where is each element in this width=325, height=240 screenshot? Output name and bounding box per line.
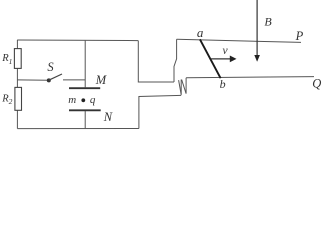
rail P <box>177 39 301 42</box>
wire: upper connector, right side of loop down and across <box>138 41 174 82</box>
magnetic field arrow B line <box>256 0 258 56</box>
velocity arrowhead <box>230 56 237 63</box>
wire: switch wire left segment <box>17 79 48 81</box>
svg-text:B: B <box>264 14 272 28</box>
svg-text:a: a <box>197 25 204 40</box>
svg-text:Q: Q <box>312 77 321 91</box>
wire: top wire of left loop <box>17 39 138 42</box>
wire: zigzag break, left diagonal <box>179 80 182 95</box>
wire: switch wire right segment <box>63 79 85 81</box>
svg-text:S: S <box>47 60 54 74</box>
wire: vertical wire from top wire to plate M <box>84 41 86 88</box>
svg-text:R2: R2 <box>1 93 12 106</box>
wire: zigzag break, vertical end of lower wire <box>180 80 182 95</box>
wire: zigzag break, right diagonal <box>182 80 187 94</box>
wire: bottom wire of left loop <box>17 128 138 130</box>
svg-text:v: v <box>223 45 229 57</box>
wire: left vertical wire <box>16 40 18 129</box>
svg-text:m: m <box>68 94 76 106</box>
resistor R2 <box>15 87 22 110</box>
particle dot <box>81 98 85 102</box>
wire: vertical wire from plate N to bottom wire <box>84 111 86 128</box>
sliding rod ab <box>200 39 221 78</box>
switch S pivot dot <box>47 78 51 82</box>
capacitor plate M <box>69 87 100 89</box>
velocity arrow v <box>211 58 230 60</box>
wire: jogged riser up to rail P left end <box>174 39 177 82</box>
magnetic field arrowhead <box>254 55 260 62</box>
svg-text:R1: R1 <box>1 53 12 66</box>
capacitor plate N <box>69 109 101 111</box>
resistor R1 <box>14 49 21 69</box>
rail Q <box>186 77 314 78</box>
svg-text:q: q <box>90 94 96 106</box>
wire: zigzag break, right vertical up to rail Q <box>185 78 187 94</box>
svg-text:b: b <box>220 77 226 91</box>
svg-text:N: N <box>103 110 113 124</box>
svg-text:M: M <box>95 73 107 87</box>
switch S arm <box>49 74 62 80</box>
wire: lower connector from bottom wire up and across <box>139 95 181 128</box>
svg-text:P: P <box>295 29 304 43</box>
